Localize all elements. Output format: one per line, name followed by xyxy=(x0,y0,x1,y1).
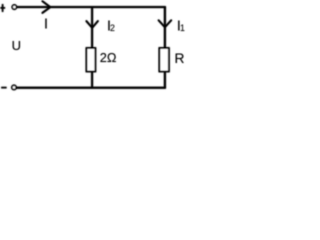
arrow I1 on right wire xyxy=(159,20,172,27)
top wire xyxy=(17,6,166,8)
arrow I on top wire xyxy=(42,1,50,13)
arrow I2 on mid wire xyxy=(86,21,98,28)
wire mid vertical bottom lead xyxy=(91,71,93,87)
bottom wire xyxy=(16,87,166,89)
svg-text:2Ω: 2Ω xyxy=(100,50,117,65)
bottom wire xyxy=(16,87,166,89)
bottom-left terminal circle xyxy=(12,85,16,89)
resistor 2ohm box xyxy=(87,48,96,71)
plus terminal sign xyxy=(0,4,5,12)
top-left terminal circle xyxy=(12,5,16,9)
arrow I2 on mid wire xyxy=(86,21,98,28)
resistor R box xyxy=(159,48,168,71)
top wire xyxy=(17,6,166,8)
svg-text:U: U xyxy=(12,38,21,53)
arrow I1 on right wire xyxy=(159,20,172,27)
bottom-left terminal circle xyxy=(12,85,16,89)
arrow I on top wire xyxy=(42,1,50,13)
minus terminal sign xyxy=(1,87,6,89)
wire mid vertical top xyxy=(91,7,93,48)
wire right vertical xyxy=(164,7,166,88)
svg-text:2: 2 xyxy=(110,23,115,33)
minus terminal sign xyxy=(1,87,6,89)
svg-text:1: 1 xyxy=(180,23,185,33)
resistor R box xyxy=(159,48,168,71)
wire right vertical xyxy=(164,7,166,88)
wire mid vertical top xyxy=(91,7,93,48)
svg-text:R: R xyxy=(175,51,185,66)
wire mid vertical bottom lead xyxy=(91,71,93,87)
svg-text:I: I xyxy=(44,17,48,33)
resistor 2ohm box xyxy=(87,48,96,71)
top-left terminal circle xyxy=(12,5,16,9)
plus terminal sign xyxy=(0,4,5,12)
